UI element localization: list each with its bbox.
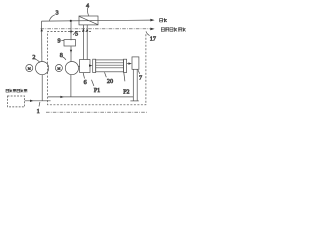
filter box 4 with diagonal: [79, 16, 98, 25]
arrow fresh water: [150, 19, 154, 22]
riser A box6 to filter 4: [82, 25, 84, 60]
svg-text:9: 9: [57, 38, 60, 45]
controller box 9: [64, 40, 76, 46]
leader 5: [73, 32, 75, 35]
pump2 downpipe: [70, 75, 72, 97]
text fresh water (tansui): [160, 18, 167, 22]
svg-text:3: 3: [55, 9, 58, 16]
leader 2: [35, 59, 40, 62]
wire: branch down to box 9: [70, 21, 72, 40]
svg-text:17: 17: [150, 36, 156, 43]
pump P1 body (item 2): [36, 62, 49, 75]
svg-text:20: 20: [107, 78, 113, 85]
outer chain line: bottom: [46, 111, 148, 113]
svg-text:P2: P2: [123, 89, 129, 95]
motor M of pump 2: [26, 65, 33, 72]
motor M of pump 8: [55, 65, 62, 72]
flow arrow up: [82, 28, 84, 31]
svg-text:8: 8: [60, 52, 63, 59]
wire: permeate line to fresh water outlet: [42, 20, 151, 21]
source box (dashed): [8, 96, 25, 107]
pump1 downpipe: [41, 75, 43, 101]
drain end bar: [130, 100, 138, 102]
pump P2 body (item 8): [65, 62, 78, 75]
svg-text:P1: P1: [94, 88, 100, 94]
membrane module 20: left cap: [93, 59, 96, 72]
flow arrow down: [70, 31, 72, 34]
flow arrow up on riser: [41, 28, 43, 31]
leader 4: [87, 8, 88, 16]
module body: [96, 60, 124, 72]
text concentrate discharge (6 chars): [161, 27, 185, 32]
leader 3: [49, 15, 54, 21]
pump1 riser (line 3): [41, 21, 43, 62]
valve box 6: [80, 60, 90, 73]
module right cap: [124, 59, 127, 72]
wire: box 9 to pump 8: [70, 47, 72, 62]
svg-text:M: M: [28, 67, 31, 71]
flow arrow down: [70, 50, 72, 53]
leader 17: [146, 31, 150, 35]
outer chain line 17: top with arrow: [41, 28, 151, 30]
flow arrow up: [86, 28, 88, 31]
drain pipe right: [136, 69, 138, 101]
arrow into module: [88, 65, 91, 67]
drain pipe left: [132, 69, 134, 101]
leader 20: [105, 72, 107, 77]
inner dashed enclosure 5: [48, 32, 146, 105]
pipe module to unit 7 with arrow: [127, 63, 129, 65]
flow arrow right: [60, 96, 64, 98]
leader 8: [63, 57, 66, 60]
leader 1: [38, 102, 41, 107]
riser B box6 to filter 4: [86, 25, 88, 60]
text raw water supply source (6 chars): [6, 89, 27, 93]
module inner lines: [96, 63, 124, 68]
svg-text:7: 7: [139, 74, 142, 81]
wire: feed line from source: [25, 100, 51, 102]
svg-text:M: M: [58, 67, 61, 71]
leader P1: [92, 80, 94, 86]
leader 7: [138, 70, 140, 74]
svg-text:1: 1: [37, 108, 40, 115]
svg-text:6: 6: [84, 79, 87, 86]
unit 7 box: [132, 57, 139, 69]
wire: recirculation line B: [48, 96, 133, 98]
svg-text:2: 2: [32, 54, 35, 61]
connector pump2 to box6: [79, 66, 80, 68]
leader 6: [83, 73, 84, 79]
leader P2: [124, 72, 125, 81]
leader 9: [61, 40, 64, 42]
flow arrow right: [30, 100, 34, 102]
node junction dot: [70, 20, 72, 22]
